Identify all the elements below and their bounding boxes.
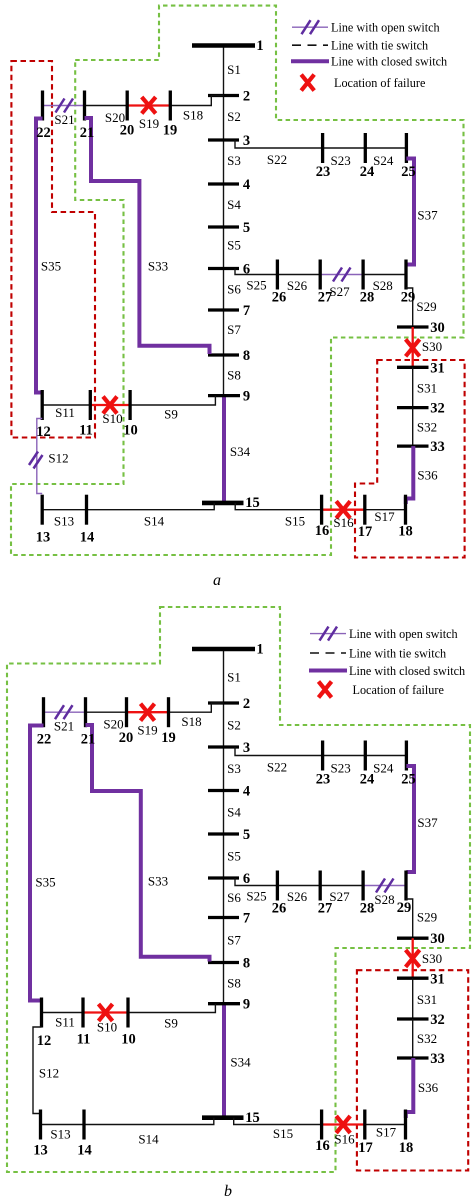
failed line S30 (bus30-bus31) [412,938,414,978]
svg-text:Line with closed switch: Line with closed switch [349,664,465,678]
bus 6 [208,267,239,270]
line S33 closed switch (bus21-bus8) [85,118,210,354]
svg-text:7: 7 [243,911,250,927]
line S33 closed switch (bus21-bus8) [86,725,210,962]
wire S13 [41,1124,85,1126]
svg-text:18: 18 [398,524,413,540]
bus 20 [125,697,128,727]
svg-text:7: 7 [243,303,250,319]
svg-text:5: 5 [243,220,250,236]
failure X S19 [141,704,155,721]
svg-text:22: 22 [36,125,51,141]
svg-text:29: 29 [397,900,412,916]
wire S28 [363,274,406,276]
bus 18 [404,495,407,525]
wire S27 [320,885,363,887]
svg-text:Line with tie switch: Line with tie switch [331,39,428,53]
svg-text:S19: S19 [137,723,157,738]
svg-text:1: 1 [256,642,263,658]
svg-text:S27: S27 [329,889,350,904]
wire S25 [235,269,277,275]
svg-text:6: 6 [243,262,250,278]
svg-text:b: b [224,1183,232,1200]
bus 24 [364,741,367,771]
line S36 closed switch (bus33-bus18) [406,1058,414,1118]
bus 22 [41,91,44,121]
bus 20 [126,91,129,121]
failure X S19 [142,97,156,114]
bus 5 [208,832,239,835]
svg-text:S31: S31 [417,381,437,396]
bus 12 [40,998,43,1028]
bus 2 [208,94,239,97]
svg-text:S37: S37 [417,208,438,223]
bus 28 [361,260,364,290]
bus 26 [276,260,279,290]
bus 22 [42,697,45,727]
svg-text:S17: S17 [374,509,395,524]
open switch slashes S12 [29,452,43,469]
svg-text:S2: S2 [227,109,241,124]
svg-text:15: 15 [245,495,260,511]
svg-text:Line with open switch: Line with open switch [331,21,440,35]
svg-text:S33: S33 [148,259,168,274]
legend failure X [319,682,332,698]
wire S31 [412,367,414,407]
failed line S30 (bus30-bus31) [412,327,414,367]
bus 1 [192,647,255,652]
svg-text:21: 21 [80,125,95,141]
svg-text:10: 10 [123,423,138,439]
svg-text:S32: S32 [417,1031,437,1046]
svg-text:S16: S16 [333,515,354,530]
svg-text:23: 23 [316,164,331,180]
svg-text:21: 21 [81,732,96,748]
wire S13 [42,509,86,511]
bus 15 [202,501,244,506]
bus 7 [208,308,239,311]
svg-text:28: 28 [360,901,375,917]
svg-text:S26: S26 [287,278,308,293]
bus 26 [276,871,279,901]
svg-text:S23: S23 [330,761,350,776]
line S21 open switch (bus22-bus21) [44,711,86,713]
svg-text:33: 33 [430,439,445,455]
svg-text:10: 10 [121,1032,136,1048]
svg-text:22: 22 [37,732,52,748]
open switch slashes S21 [56,99,74,113]
bus 27 [319,260,322,290]
line S37 closed switch (bus25-bus29) [406,159,414,265]
svg-text:25: 25 [401,164,416,180]
wire S29 [406,288,413,327]
svg-text:S22: S22 [267,152,287,167]
svg-text:S12: S12 [48,451,68,466]
svg-text:S9: S9 [164,407,178,422]
wire S11 [42,404,90,406]
red dashed outage boundary left (figure a) [11,61,95,438]
wire S14 [84,1118,214,1125]
bus 31 [397,366,429,369]
wire S23 [323,755,366,757]
svg-text:2: 2 [243,89,250,105]
svg-text:Line with closed switch: Line with closed switch [331,55,447,69]
wire S9 [128,1004,215,1013]
line S28 open switch (bus28-bus29) [363,885,406,887]
bus 15 [202,1115,244,1120]
bus 23 [321,741,324,771]
svg-text:2: 2 [243,696,250,712]
svg-text:S11: S11 [55,1015,75,1030]
svg-text:S29: S29 [417,910,437,925]
wire S7 [223,310,225,355]
wire S12 (bus12-bus13) [33,1027,42,1114]
svg-text:S11: S11 [55,405,75,420]
bus 27 [319,871,322,901]
wire S8 [223,963,225,1004]
wire S29 [406,899,413,938]
bus 32 [397,1017,429,1020]
svg-text:S4: S4 [227,197,241,212]
bus 30 [397,937,429,940]
svg-text:15: 15 [245,1110,260,1126]
red dashed outage boundary (figure b) [357,970,468,1170]
wire S22 [235,747,323,756]
bus 31 [397,977,429,980]
green dashed service-restoration boundary (figure b) [7,607,470,1172]
svg-text:S34: S34 [230,1055,251,1070]
svg-text:13: 13 [33,1143,48,1159]
wire S3 [223,140,225,184]
bus 28 [361,871,364,901]
bus 17 [363,1110,366,1140]
wire S8 [223,355,225,396]
bus 13 [39,1110,42,1140]
bus 4 [208,789,239,792]
bus 24 [364,133,367,163]
svg-text:S6: S6 [227,282,241,297]
svg-text:16: 16 [315,1138,330,1154]
red dashed outage boundary right (figure a) [355,360,465,558]
wire S5 [223,834,225,878]
svg-text:Location of failure: Location of failure [353,683,444,697]
wire S18 [169,703,224,712]
svg-text:13: 13 [36,530,51,546]
svg-text:S32: S32 [417,420,437,435]
wire S23 [323,147,366,149]
svg-text:S33: S33 [148,874,168,889]
svg-text:9: 9 [243,997,250,1013]
bus 17 [363,495,366,525]
legend open switch slashes [302,20,320,34]
line S35 closed switch (bus22-bus12) [30,726,44,1001]
svg-text:4: 4 [243,784,250,800]
svg-text:S18: S18 [181,714,201,729]
line S12 open switch (bus12-bus13) [37,419,42,494]
svg-text:S25: S25 [246,889,266,904]
failed line S19 (bus20-bus19) [127,104,170,106]
bus 4 [208,182,239,185]
wire S24 [365,755,406,757]
bus 9 [208,394,240,397]
bus 29 [404,260,407,290]
svg-text:S10: S10 [102,411,122,426]
line S34 closed switch (bus9-bus15) [222,396,226,503]
svg-text:S20: S20 [105,110,125,125]
svg-text:32: 32 [430,1012,445,1028]
svg-text:S30: S30 [422,951,442,966]
svg-text:26: 26 [272,290,287,306]
svg-text:Line with open switch: Line with open switch [349,627,458,641]
svg-text:14: 14 [77,1143,92,1159]
wire S17 [365,1124,406,1126]
line S21 open switch (bus22-bus21) [43,105,85,107]
wire S14 [87,503,215,510]
open switch slashes S27 [333,268,351,282]
svg-text:S10: S10 [97,1020,117,1035]
wire S6 [223,878,225,918]
svg-text:16: 16 [315,523,330,539]
bus 19 [169,91,172,121]
svg-text:S21: S21 [54,719,74,734]
svg-text:S35: S35 [35,875,55,890]
svg-text:S26: S26 [287,889,308,904]
bus 19 [167,697,170,727]
svg-text:17: 17 [358,524,373,540]
svg-text:S15: S15 [273,1126,293,1141]
wire S11 [42,1012,84,1014]
wire S4 [223,791,225,835]
svg-text:S37: S37 [417,815,438,830]
svg-text:S1: S1 [227,62,241,77]
failure X S30 [406,339,420,356]
legend tie switch sample line [292,44,328,46]
svg-text:S19: S19 [139,116,159,131]
svg-text:11: 11 [77,1032,91,1048]
svg-text:S13: S13 [50,1127,70,1142]
svg-text:S3: S3 [227,761,241,776]
bus 25 [405,133,408,163]
svg-text:32: 32 [430,401,445,417]
svg-text:S29: S29 [416,299,436,314]
bus 16 [320,495,323,525]
wire S18 [170,96,223,106]
wire S25 [235,878,277,886]
bus 30 [397,325,429,328]
svg-text:S14: S14 [138,1132,159,1147]
svg-text:19: 19 [161,730,176,746]
bus 14 [82,1110,85,1140]
wire S3 [223,747,225,791]
wire S26 [277,274,320,276]
bus 29 [404,871,407,901]
svg-text:17: 17 [358,1140,373,1156]
wire S4 [223,184,225,227]
bus 7 [208,916,239,919]
bus 21 [84,697,87,727]
svg-text:S21: S21 [54,112,74,127]
svg-text:S18: S18 [183,108,203,123]
bus 18 [404,1110,407,1140]
svg-text:S30: S30 [422,339,442,354]
svg-text:S5: S5 [227,238,241,253]
bus 33 [397,444,429,447]
svg-text:S9: S9 [164,1016,178,1031]
svg-text:3: 3 [243,133,250,149]
bus 13 [41,495,44,525]
failure X S10 [99,1004,113,1021]
svg-text:24: 24 [360,772,375,788]
svg-text:29: 29 [401,290,416,306]
legend closed switch sample line [309,669,347,673]
wire S9 [130,396,215,405]
svg-text:S36: S36 [417,468,438,483]
open switch slashes S21 [55,705,73,719]
svg-text:S23: S23 [330,153,350,168]
failure X S10 [103,397,117,414]
bus 14 [85,495,88,525]
wire S15 [235,503,321,510]
svg-text:S7: S7 [227,933,241,948]
wire S2 [223,703,225,747]
svg-text:3: 3 [243,740,250,756]
svg-text:20: 20 [119,730,134,746]
wire S24 [365,147,406,149]
bus 32 [397,406,429,409]
line S35 closed switch (bus22-bus12) [36,119,43,393]
svg-text:S28: S28 [374,892,394,907]
svg-text:8: 8 [243,348,250,364]
svg-text:S27: S27 [329,284,350,299]
wire S7 [223,918,225,963]
failed line S10 (bus11-bus10) [83,1011,128,1013]
svg-text:S25: S25 [246,278,266,293]
svg-text:23: 23 [316,772,331,788]
bus 8 [208,353,239,356]
svg-text:5: 5 [243,827,250,843]
wire S20 [85,105,128,107]
legend closed switch sample line [291,59,329,63]
bus 9 [208,1002,240,1005]
svg-text:4: 4 [243,177,250,193]
svg-text:S36: S36 [418,1080,439,1095]
wire S17 [365,509,406,511]
svg-text:S34: S34 [230,444,251,459]
wire S1 [223,46,225,96]
svg-text:9: 9 [243,389,250,405]
legend tie switch sample line [310,652,346,654]
svg-text:14: 14 [80,530,95,546]
green dashed service-restoration boundary (figure a) [11,6,464,555]
svg-text:S5: S5 [227,849,241,864]
line S34 closed switch (bus9-bus15) [222,1004,226,1118]
svg-text:27: 27 [318,901,333,917]
failure X S30 [406,950,420,967]
svg-text:33: 33 [430,1051,445,1067]
svg-text:S1: S1 [227,670,241,685]
svg-text:S7: S7 [227,322,241,337]
svg-text:6: 6 [243,871,250,887]
wire S32 [412,408,414,447]
svg-text:11: 11 [79,423,93,439]
svg-text:12: 12 [36,424,51,440]
svg-text:S3: S3 [227,153,241,168]
bus 3 [208,138,239,141]
legend open switch sample line [292,26,328,28]
line S37 closed switch (bus25-bus29) [406,766,414,872]
bus 10 [128,390,131,420]
bus 6 [208,876,239,879]
bus 10 [126,998,129,1028]
bus 16 [320,1110,323,1140]
svg-text:25: 25 [401,772,416,788]
svg-text:S2: S2 [227,718,241,733]
wire S5 [223,227,225,269]
failure X S16 [336,501,350,518]
svg-text:Line with tie switch: Line with tie switch [349,647,446,661]
svg-text:S35: S35 [41,259,61,274]
svg-text:26: 26 [272,901,287,917]
svg-text:24: 24 [360,164,375,180]
svg-text:S31: S31 [417,992,437,1007]
svg-text:1: 1 [256,38,263,54]
svg-text:28: 28 [360,290,375,306]
svg-text:8: 8 [243,956,250,972]
svg-text:S8: S8 [227,368,241,383]
wire S15 [234,1118,322,1125]
svg-text:S17: S17 [376,1125,397,1140]
svg-text:19: 19 [163,123,178,139]
wire S2 [223,96,225,141]
svg-text:S14: S14 [144,514,165,529]
svg-text:31: 31 [430,972,445,988]
svg-text:S8: S8 [227,976,241,991]
failed line S10 (bus11-bus10) [90,404,130,406]
bus 1 [192,43,255,48]
svg-text:S4: S4 [227,805,241,820]
wire S1 [223,649,225,703]
bus 25 [405,741,408,771]
legend failure X [301,75,314,91]
svg-text:27: 27 [318,290,333,306]
failed line S16 (bus16-bus17) [322,509,365,511]
svg-text:a: a [213,572,221,589]
svg-text:31: 31 [430,360,445,376]
svg-text:S15: S15 [285,514,305,529]
wire S31 [412,978,414,1019]
legend open switch sample line [310,633,346,635]
svg-text:S6: S6 [227,890,241,905]
wire S32 [412,1019,414,1058]
line S36 closed switch (bus33-bus18) [406,446,414,504]
failed line S19 (bus20-bus19) [127,711,169,713]
svg-text:S28: S28 [373,278,393,293]
svg-text:S16: S16 [334,1132,355,1147]
bus 23 [321,133,324,163]
bus 2 [208,701,239,704]
svg-text:S20: S20 [103,717,123,732]
legend open switch slashes [320,627,338,641]
bus 11 [89,390,92,420]
svg-text:Location of failure: Location of failure [334,76,425,90]
failure X S16 [336,1116,350,1133]
bus 33 [397,1056,429,1059]
open switch slashes S28 [376,879,394,893]
bus 11 [81,998,84,1028]
wire S6 [223,269,225,311]
wire S20 [86,711,127,713]
bus 3 [208,745,239,748]
